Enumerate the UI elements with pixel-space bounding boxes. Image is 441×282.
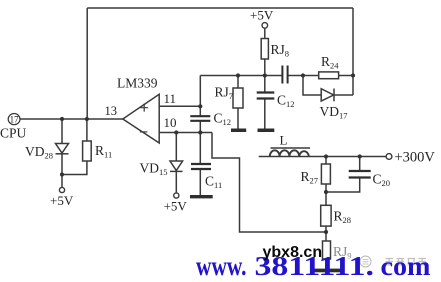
terminal circle +5V under VD28 [59,187,64,192]
node dot RJ7 top [236,73,240,77]
node dot pin11 junction [198,104,202,108]
node dot VD28-R11 bottom join [60,172,64,176]
resistor R24 [319,72,339,79]
node dot R11/top wire on CPU wire [85,117,89,121]
wire R28 branch [325,192,327,232]
capacitor C12 under RJ8 [257,93,275,99]
wire main +300V rail with L [259,156,386,158]
diode VD17 [321,89,334,102]
svg-text:RJ7: RJ7 [215,85,234,102]
svg-text:www.: www. [196,251,247,281]
svg-text:C20: C20 [373,172,391,189]
op-amp minus input sign [140,131,148,133]
watermark grey chinese characters [386,258,427,266]
wire left vertical from top to node 13 [86,8,88,119]
svg-text:C12: C12 [277,93,295,110]
capacitor C20 [349,171,371,178]
wire R24 right to output node [339,75,353,77]
svg-text:RJ8: RJ8 [271,42,290,59]
svg-text:+5V: +5V [164,199,188,214]
capacitor C12 between pins 11 and 10 [190,116,210,121]
wire feedback path pin10 to R28/RJ9 node [212,133,326,233]
wire VD28 branch vertical [61,119,63,188]
wire right vertical from top to R24 output node [352,8,354,95]
node dot R24 left / VD17 [301,73,305,77]
inductor L coil bumps [270,150,309,156]
node dot R28/RJ9/feedback [324,230,328,234]
svg-text:11: 11 [164,91,177,106]
wire C12b branch [264,76,266,129]
capacitor C11 [191,164,211,169]
node dot RJ8 bottom [263,73,267,77]
wire VD17 loop [303,76,353,96]
node dot C20 top on +300V rail [358,154,362,158]
resistor R11 [83,141,92,161]
svg-text:C12: C12 [214,111,232,128]
resistor R28 [321,205,331,226]
wire pin11 node up to AC-couple rail and down to C12 [199,76,201,133]
wire top feedback horizontal [87,7,353,9]
wire C11 branch vertical [199,133,201,196]
inductor L core bar [271,147,311,149]
diode VD15 [170,161,183,171]
svg-text:R11: R11 [95,143,112,160]
terminal circle +300V [386,154,392,160]
wire RJ7 branch [237,76,239,129]
wire VD15 branch vertical [175,133,177,194]
svg-text:VD15: VD15 [140,161,168,178]
svg-text:com: com [381,251,432,281]
node dot R27 top on +300V rail [324,154,328,158]
svg-text:VD28: VD28 [25,144,53,161]
svg-text:10: 10 [164,115,177,130]
ground bar under RJ7 [231,129,246,133]
ground bar under C12 [258,129,275,133]
resistor RJ7 [233,88,243,108]
wire RJ8 branch [264,28,266,75]
terminal circle +5V under VD15 [174,193,179,198]
svg-text:+300V: +300V [395,150,436,166]
wire pin 10 horizontal [160,132,213,134]
svg-text:+5V: +5V [250,8,274,23]
svg-text:L: L [280,133,288,148]
op-amp U1 LM339 comparator triangle [123,94,159,143]
wire RJ9 branch [325,232,327,269]
svg-text:CPU: CPU [0,126,27,141]
resistor RJ9 [323,241,331,259]
node dot C12/C11 on pin10 wire [198,130,202,134]
svg-text:VD17: VD17 [320,104,348,121]
svg-text:R24: R24 [321,54,339,71]
watermark blue url text [196,251,431,281]
svg-text:R28: R28 [334,209,352,226]
wire CPU input horizontal to pin 13 [20,118,124,120]
node dot R24 right / VD17 output [351,73,355,77]
svg-text:+5V: +5V [50,193,74,208]
node dot VD15 on pin10 wire [174,130,178,134]
op-amp plus input sign [140,104,148,112]
ground bar under RJ9 [312,269,342,273]
svg-text:17: 17 [10,115,20,125]
svg-text:C11: C11 [205,174,222,191]
wire coupling rail horizontal [200,75,318,77]
terminal circled pin 17 CPU [8,114,20,125]
svg-text:13: 13 [105,104,118,118]
node dot R27/C20 bottom join [324,190,328,194]
node dot VD28 on CPU wire [60,117,64,121]
capacitor series coupling cap [282,66,287,84]
svg-text:R27: R27 [301,169,319,186]
watermark grey reviewer stamp circle [360,256,371,267]
svg-text:ybx8.cn: ybx8.cn [263,244,323,261]
wire pin 11 horizontal [160,105,201,107]
wire R27 branch [325,157,327,193]
wire R11 branch vertical and bottom join [62,119,87,175]
terminal circle +5V above RJ8 [262,23,268,29]
svg-text:LM339: LM339 [117,76,158,91]
resistor RJ8 [261,39,268,60]
ground bar under C11 [190,195,213,198]
wire C20 branch [326,157,360,193]
resistor R27 [321,164,330,184]
diode VD28 [56,144,69,154]
